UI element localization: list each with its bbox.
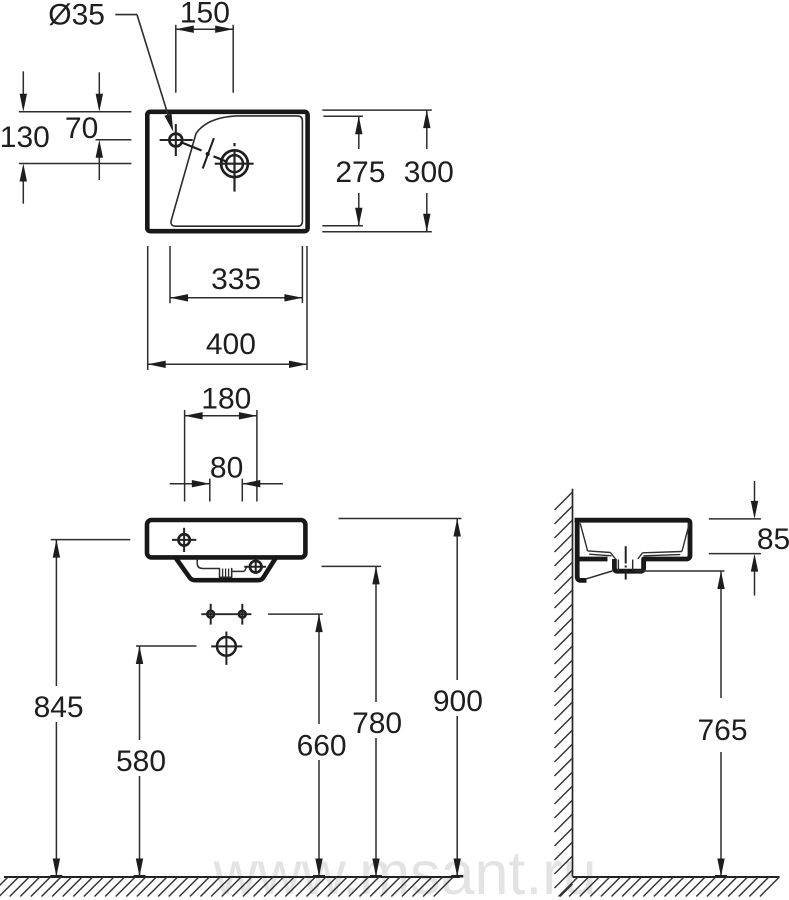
dimension 845	[51, 539, 131, 541]
front view: drain trap detail	[220, 569, 232, 578]
side view: drain centerline	[625, 546, 627, 563]
svg-text:900: 900	[433, 685, 483, 718]
svg-text:660: 660	[297, 729, 347, 762]
svg-text:Ø35: Ø35	[48, 0, 105, 31]
dimension 130	[19, 163, 131, 165]
top view: inner basin outline	[171, 116, 302, 226]
dimension 85	[709, 518, 761, 520]
front view: waste outlet crosshair	[217, 637, 236, 656]
dimension 80	[209, 479, 211, 502]
floor line left	[4, 876, 460, 878]
front view: fixing holes crosshairs	[207, 611, 214, 618]
dimension 335	[169, 246, 171, 303]
front view: bowl underside	[175, 558, 276, 581]
floor line right	[573, 876, 780, 878]
svg-text:275: 275	[335, 156, 385, 189]
dimension 900	[339, 518, 462, 520]
top view: axis tick mark	[203, 138, 214, 168]
dimension 780	[322, 565, 382, 567]
dimension 70	[19, 111, 131, 113]
side view: foot diagonal	[587, 571, 613, 579]
svg-text:335: 335	[211, 263, 261, 296]
svg-text:70: 70	[65, 112, 98, 145]
side view: wall hatching	[555, 492, 573, 510]
side view: basin profile rim and right edge	[575, 520, 690, 571]
dimension 660	[268, 613, 323, 615]
front view: overflow crosshair	[250, 561, 262, 573]
side view: drain box verticals	[617, 560, 619, 571]
side view: underside left segment	[579, 557, 608, 562]
top view: drain crosshair	[221, 150, 248, 177]
top view: faucet-drain axis (dash-dot)	[181, 142, 202, 151]
svg-text:180: 180	[201, 383, 251, 416]
svg-text:780: 780	[352, 707, 402, 740]
side view: wall line	[572, 489, 574, 877]
svg-text:400: 400	[206, 328, 256, 361]
side view: bowl inner contours	[580, 523, 587, 551]
svg-text:765: 765	[697, 714, 747, 747]
floor hatching right	[559, 877, 579, 897]
svg-text:845: 845	[34, 691, 84, 724]
dimension 765	[635, 570, 725, 572]
dimension 300	[322, 109, 432, 111]
svg-text:80: 80	[210, 452, 243, 485]
floor hatching left	[0, 877, 8, 897]
svg-text:580: 580	[116, 745, 166, 778]
front view: bowl inner contour	[197, 559, 219, 569]
dimension 275	[323, 115, 363, 117]
side view: wall-side bar with foot	[577, 520, 586, 580]
svg-text:130: 130	[0, 121, 50, 154]
front view: faucet hole crosshair	[178, 534, 189, 545]
svg-text:300: 300	[404, 156, 454, 189]
top view: outer rim	[147, 112, 307, 231]
floor ticks at dimension arrows	[50, 875, 62, 877]
dimension 400	[147, 246, 149, 370]
top view: faucet hole crosshair	[169, 134, 182, 147]
dimension 150	[175, 25, 177, 93]
svg-text:85: 85	[757, 523, 789, 556]
front view: rim body	[147, 520, 305, 557]
dimension 580	[136, 645, 197, 647]
dimension 180	[184, 410, 186, 502]
svg-text:150: 150	[180, 0, 230, 30]
